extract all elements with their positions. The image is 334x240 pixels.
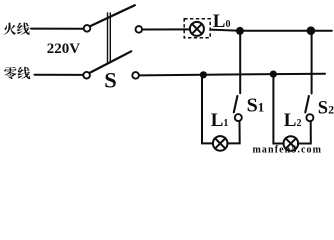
lamp L1 [213, 136, 228, 151]
wire node B down to switch S2 [311, 31, 313, 94]
switch S1 terminal [235, 114, 242, 121]
svg-text:manfen5.com: manfen5.com [253, 144, 323, 153]
label 零线 (neutral wire) [4, 67, 30, 79]
terminal switch S pole1 right [136, 26, 143, 33]
svg-text:S2: S2 [318, 98, 334, 118]
svg-text:S1: S1 [247, 95, 265, 117]
switch S1 blade [234, 96, 238, 112]
wire live node B to end [311, 30, 332, 32]
node A junction dot [236, 27, 244, 35]
wire lamp L2 left up to node D [273, 75, 283, 144]
switch S linkage bar [108, 13, 111, 63]
label 火线 (live wire) [4, 23, 30, 35]
switch S2 blade [305, 96, 309, 112]
wire neutral node C to node D [203, 73, 273, 76]
wire neutral lead-in [35, 74, 84, 76]
wire node A down to switch S1 [239, 31, 241, 93]
switch S2 terminal [306, 114, 313, 121]
node C junction dot [200, 71, 207, 78]
switch S pole2 blade [90, 51, 132, 73]
wire live L0 to node A [210, 30, 240, 31]
lamp L0 [190, 22, 204, 36]
svg-text:L1: L1 [211, 110, 229, 131]
wire S1 down to lamp L1 [227, 121, 239, 143]
terminal switch S pole2 right [132, 72, 139, 79]
wire live lead-in [31, 28, 84, 30]
wire live to lamp L0 [142, 28, 190, 30]
terminal switch S pole1 left [84, 25, 91, 32]
svg-text:L2: L2 [284, 110, 302, 131]
svg-text:220V: 220V [47, 41, 81, 57]
switch S pole1 blade [90, 5, 135, 26]
lamp L2 [284, 136, 299, 151]
wire live node A to node B [240, 30, 311, 32]
wire lamp L1 left up to node C [202, 75, 213, 143]
wire neutral node D to end [273, 73, 325, 75]
dashed box around L0 [184, 19, 210, 38]
node D junction dot [270, 71, 277, 78]
wire neutral to node C [139, 74, 203, 77]
node B junction dot [307, 26, 316, 35]
svg-text:S: S [104, 68, 117, 93]
terminal switch S pole2 left [83, 72, 90, 79]
wire S2 down to lamp L2 [298, 121, 311, 143]
